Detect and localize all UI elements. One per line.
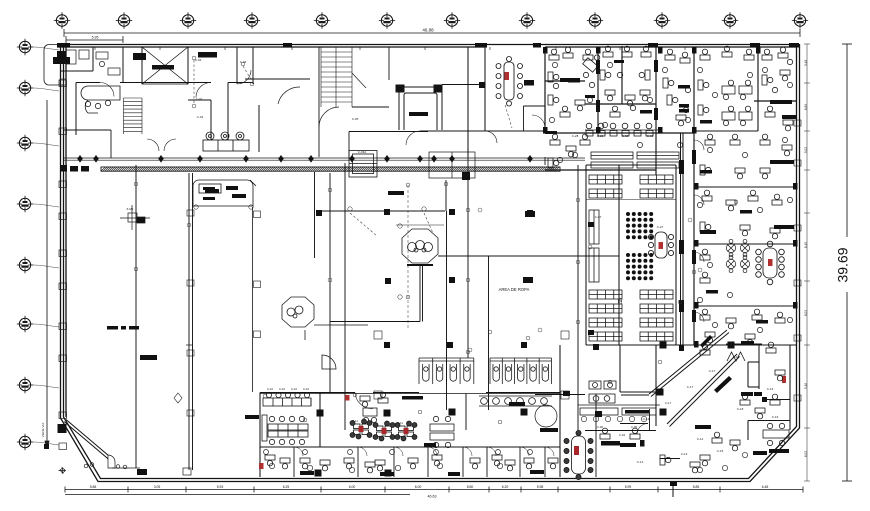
right rooms walls — [694, 101, 797, 345]
top-left canopy — [44, 45, 64, 86]
circled wall marker — [418, 410, 422, 414]
desk with chair — [622, 46, 632, 57]
office desk 2 — [320, 460, 330, 471]
chair — [395, 465, 400, 470]
desk with chair — [641, 46, 651, 57]
door jamb block — [694, 341, 699, 348]
right secondary dimension line — [804, 44, 810, 481]
chair 2 — [264, 450, 269, 455]
C-10 desk row — [263, 392, 311, 406]
conference cabinet — [524, 80, 534, 86]
desk with chair — [700, 165, 711, 175]
wall tab — [187, 210, 194, 216]
grid desk — [739, 106, 752, 126]
top wall thick segment — [533, 43, 541, 48]
chair row — [641, 416, 646, 421]
6-M1 fixture — [120, 205, 150, 230]
loose chairs — [553, 72, 594, 88]
grid bubble left 8 — [17, 434, 33, 450]
workstation cluster — [354, 424, 369, 435]
octagon kiosk — [402, 229, 438, 263]
desk with chair — [676, 115, 686, 126]
scattered chair — [677, 142, 682, 147]
circled wall marker — [608, 380, 612, 384]
office partition — [293, 447, 295, 477]
door arc — [294, 447, 303, 456]
desk — [700, 344, 710, 355]
grid bubble left 3 — [17, 135, 33, 151]
desk with chair — [783, 120, 793, 131]
top-left room furniture — [66, 50, 120, 75]
face-to-face desk cluster — [262, 415, 308, 445]
bottom band walls — [260, 345, 560, 477]
canopy tab — [60, 79, 66, 85]
circled wall marker — [406, 183, 410, 187]
dark mark — [588, 222, 594, 227]
black counter C-04 — [601, 441, 620, 446]
circled wall marker — [658, 360, 662, 364]
desk with chair — [680, 52, 690, 63]
grid bubble top 10 — [654, 12, 670, 28]
desk with chair — [760, 168, 770, 179]
column — [316, 210, 322, 216]
chair — [269, 463, 274, 468]
diamond marker — [174, 393, 182, 403]
storage rack — [640, 332, 673, 341]
wall tick — [555, 47, 557, 50]
round table — [740, 255, 749, 272]
door arc — [694, 312, 704, 322]
circled wall marker — [734, 200, 738, 204]
circled wall marker — [192, 56, 196, 60]
svg-text:C-17: C-17 — [709, 369, 716, 373]
wall marker circle — [698, 268, 702, 272]
door arc — [694, 140, 704, 150]
svg-text:C-10: C-10 — [267, 387, 274, 391]
scattered chair — [712, 92, 717, 97]
diagonal corridor — [649, 330, 740, 427]
black counter bar — [625, 410, 649, 414]
wall tab — [187, 280, 194, 286]
left wall tab — [59, 181, 67, 188]
door arc — [694, 252, 704, 262]
leader circle — [348, 207, 352, 211]
storage rack — [589, 189, 622, 198]
desk with chair — [360, 396, 370, 407]
cabinet mark — [560, 78, 576, 82]
circled wall marker — [353, 393, 357, 397]
svg-text:C-17: C-17 — [665, 401, 672, 405]
circled wall marker — [134, 267, 138, 271]
chair — [497, 463, 502, 468]
ramp wall diagonal — [64, 420, 112, 461]
chair 2 — [303, 450, 308, 455]
chair row — [617, 416, 622, 421]
diagonal thick mark 2 — [700, 335, 713, 348]
chair row — [581, 416, 586, 421]
bottom dimension line — [65, 487, 803, 493]
door jamb block — [658, 47, 663, 54]
cabinet — [770, 160, 794, 164]
large door swing circle — [535, 405, 557, 427]
wall marker circle — [618, 298, 622, 302]
desk with chair — [549, 49, 559, 60]
column — [385, 470, 392, 477]
left wall tab — [59, 412, 67, 419]
circled wall marker — [444, 182, 448, 186]
desk with chair — [744, 49, 754, 60]
svg-text:C-27: C-27 — [657, 225, 664, 229]
desk with chair — [640, 90, 650, 101]
wall to conf room — [442, 84, 485, 86]
column — [657, 389, 664, 396]
column wide — [523, 277, 533, 283]
chair 2 — [496, 450, 501, 455]
column — [527, 210, 533, 216]
loose chairs — [683, 87, 690, 112]
svg-text:C-11: C-11 — [352, 419, 358, 423]
desk with chair — [563, 47, 573, 58]
wall thick segment — [692, 250, 696, 264]
svg-text:5.98: 5.98 — [537, 485, 544, 489]
right wall tab — [794, 225, 801, 231]
grid bubble top 3 — [180, 12, 196, 28]
octagon kiosk 2 — [282, 297, 314, 327]
circled wall marker — [618, 300, 622, 304]
desk with chair — [548, 72, 559, 82]
desk with chair — [548, 158, 559, 168]
wall thick segment — [692, 150, 696, 164]
scattered chair right rooms — [697, 202, 702, 207]
door arc — [164, 139, 176, 151]
top-right office walls — [545, 46, 797, 345]
black bar — [741, 392, 753, 396]
circled wall marker — [241, 62, 245, 66]
desk with chair — [722, 46, 732, 57]
door arc — [694, 195, 704, 205]
wall marker circle — [468, 348, 472, 352]
toilet bank 2 — [490, 358, 552, 384]
entry door leaf and marks — [84, 455, 140, 469]
circled wall marker — [263, 394, 267, 398]
svg-text:C-02: C-02 — [197, 115, 204, 119]
storage rack — [640, 304, 673, 313]
desk with chair — [667, 95, 678, 105]
svg-text:C-17: C-17 — [733, 355, 740, 359]
equipment room — [193, 180, 253, 206]
circled wall marker — [678, 300, 682, 304]
circled wall marker — [576, 198, 580, 202]
office desk 2 — [408, 458, 418, 469]
thick I mark left wall — [53, 57, 70, 64]
round table — [726, 255, 735, 272]
circled wall marker — [192, 104, 196, 108]
svg-text:C-14: C-14 — [697, 437, 704, 441]
black bar sinks — [509, 402, 525, 406]
office desk 2 — [548, 458, 558, 469]
left wall tab — [59, 283, 67, 290]
desk with chair — [726, 318, 736, 329]
storage rack — [640, 189, 673, 198]
office desk 2 — [280, 458, 290, 469]
grid desk — [722, 80, 735, 100]
office partition — [462, 447, 464, 477]
column — [593, 344, 599, 350]
svg-text:C-28: C-28 — [572, 134, 579, 138]
desk with chair — [700, 455, 710, 466]
desk with chair — [660, 455, 671, 465]
storage rack — [589, 304, 622, 313]
tab on x252 wall — [254, 281, 261, 288]
wall tick — [684, 47, 686, 50]
black dash band left — [60, 165, 67, 172]
line marker diamond — [278, 155, 284, 163]
storage rack — [589, 318, 622, 327]
flag marker — [670, 481, 677, 497]
door arc — [485, 131, 497, 143]
door jamb block — [756, 47, 761, 54]
svg-text:C-10: C-10 — [279, 387, 286, 391]
chair 2 — [434, 450, 439, 455]
storage rack — [589, 175, 622, 184]
column — [525, 277, 531, 283]
red mark lower left — [259, 463, 264, 469]
scattered chair right rooms — [697, 297, 702, 302]
diagonal thick mark — [714, 376, 732, 393]
office partition — [427, 447, 429, 477]
desk with chair — [690, 462, 700, 473]
desk with chair — [700, 249, 710, 260]
svg-text:3.48: 3.48 — [804, 60, 808, 66]
column below band — [462, 172, 470, 180]
left wall tab — [59, 355, 67, 362]
svg-text:6.02: 6.02 — [804, 451, 808, 457]
office desk 2 — [470, 458, 480, 469]
desk with chair — [775, 312, 785, 323]
desk with chair — [772, 194, 782, 205]
storage rack — [589, 332, 622, 341]
dot grid lower — [626, 253, 653, 280]
stair arrow diagonal — [352, 73, 366, 88]
svg-text:C-03A: C-03A — [358, 150, 367, 154]
bubble leader — [33, 47, 59, 50]
tab on x252 wall — [254, 211, 261, 218]
C-04 room walls — [596, 394, 680, 478]
svg-text:6.00: 6.00 — [415, 485, 422, 489]
desk with chair — [762, 75, 773, 85]
washroom fixtures — [589, 381, 616, 403]
desk with chair — [705, 134, 715, 145]
jamb block — [479, 82, 485, 88]
wall marker circle — [478, 208, 482, 212]
door jamb block — [694, 183, 699, 190]
wall under toilets — [260, 393, 560, 395]
desk with chair — [700, 49, 710, 60]
loose chairs — [617, 72, 635, 110]
desk with chair — [755, 408, 765, 419]
cabinet bar — [679, 104, 689, 108]
desk with chair — [712, 432, 722, 443]
circled wall marker — [466, 208, 470, 212]
left wall tab — [59, 213, 67, 220]
desk with chair — [610, 106, 620, 117]
scattered chair right rooms — [787, 197, 792, 202]
chair — [307, 465, 312, 470]
scattered chair right rooms — [742, 152, 747, 157]
top-left block walls — [60, 47, 310, 152]
line marker diamond — [527, 155, 533, 163]
grid bubble left 4 — [17, 196, 33, 212]
line marker diamond — [77, 155, 83, 163]
right conference table — [756, 241, 785, 285]
door jamb block — [543, 127, 548, 134]
chair 2 — [528, 450, 533, 455]
svg-text:5.95: 5.95 — [92, 36, 99, 40]
left leader line — [45, 100, 49, 448]
band door arc — [355, 393, 373, 409]
svg-text:6.25: 6.25 — [283, 485, 290, 489]
desk with chair — [625, 95, 635, 106]
office partition — [486, 447, 488, 477]
line marker diamond — [308, 155, 314, 163]
desk with chair — [705, 332, 715, 343]
line marker diamond — [384, 155, 390, 163]
black dash below wall — [198, 52, 217, 58]
svg-text:6.00: 6.00 — [349, 485, 356, 489]
svg-text:C-38: C-38 — [647, 134, 654, 138]
door arc — [147, 139, 159, 151]
small top dim 5.95 — [66, 36, 123, 43]
column — [315, 470, 322, 477]
svg-text:6.89: 6.89 — [804, 104, 808, 110]
scattered chair right rooms — [707, 262, 712, 267]
dot grid upper — [626, 212, 653, 239]
floor marker — [374, 331, 382, 339]
svg-text:5.93: 5.93 — [217, 485, 224, 489]
svg-text:3.05: 3.05 — [154, 485, 161, 489]
right wall tab — [794, 160, 801, 166]
tick — [250, 180, 256, 186]
office desk — [300, 458, 310, 469]
grid bubble left 2 — [17, 80, 33, 96]
bubble leader — [33, 385, 59, 388]
desk with chair — [752, 309, 762, 320]
desk with chair — [782, 145, 792, 156]
desk with chair — [726, 200, 736, 211]
svg-text:6.20: 6.20 — [502, 485, 509, 489]
wall chunk — [679, 160, 684, 174]
desk with chair — [700, 272, 710, 283]
svg-text:6.48: 6.48 — [762, 485, 769, 489]
scattered chair — [647, 97, 652, 102]
red mark C-27 — [659, 242, 664, 249]
X-braced shaft — [142, 47, 188, 84]
red mark conference — [505, 72, 510, 80]
conference room walls — [420, 47, 545, 157]
desk with chair — [760, 134, 770, 145]
column — [521, 342, 527, 348]
wall tick — [159, 47, 161, 50]
black dash below wall — [133, 53, 146, 60]
dash2 — [540, 428, 558, 432]
column — [385, 278, 391, 284]
wall marker circle — [328, 278, 332, 282]
wall tab — [187, 410, 194, 416]
svg-text:C-11: C-11 — [397, 421, 403, 425]
door jamb block — [692, 127, 697, 134]
line marker diamond — [93, 155, 99, 163]
stair 2 — [321, 47, 352, 107]
desk with chair — [698, 80, 709, 90]
desk with chair — [600, 428, 610, 439]
circled wall marker — [303, 418, 307, 422]
door jamb block — [596, 47, 601, 54]
chair 2 — [390, 450, 395, 455]
round table — [740, 239, 749, 256]
circled wall marker — [526, 336, 530, 340]
office partition — [544, 447, 546, 477]
desk with chair — [665, 49, 675, 60]
scattered chair — [662, 67, 667, 72]
desk with chair — [775, 370, 785, 381]
black bar on wall y81 — [568, 78, 580, 83]
office desk — [524, 458, 534, 469]
long counters — [591, 152, 679, 168]
line marker diamond — [431, 155, 437, 163]
wall y130 top-left — [63, 129, 111, 131]
desk pair cluster — [430, 416, 454, 447]
scattered chair right rooms — [712, 322, 717, 327]
svg-text:5.88: 5.88 — [90, 485, 97, 489]
oval conference table C-07 — [572, 436, 586, 474]
tab on x252 wall — [254, 331, 261, 338]
circled wall marker — [328, 188, 332, 192]
desk with chair — [766, 342, 776, 353]
hall wall x252 — [252, 207, 254, 392]
wall tick — [359, 47, 361, 50]
scattered chair — [697, 67, 702, 72]
left wall tab — [59, 443, 67, 450]
svg-text:C-10: C-10 — [303, 387, 310, 391]
wall tab — [187, 350, 194, 356]
left wall tab — [59, 128, 67, 135]
desk with chair — [548, 95, 559, 105]
desk with chair — [765, 106, 775, 117]
column — [660, 409, 667, 416]
grid bubble left 7 — [17, 377, 33, 393]
scattered chair — [549, 117, 554, 122]
svg-text:C-15: C-15 — [717, 449, 724, 453]
line marker diamond — [243, 155, 249, 163]
left wall tab — [59, 323, 67, 330]
svg-text:5.02: 5.02 — [804, 147, 808, 153]
cabinet — [770, 100, 792, 104]
office desk 2 — [365, 462, 375, 473]
dumbwaiter shaft — [349, 151, 377, 178]
right wall tab — [794, 120, 801, 126]
door arc — [520, 447, 529, 456]
chair 2 — [348, 450, 353, 455]
wall dash — [741, 341, 754, 345]
wall marker circle — [588, 245, 592, 249]
line marker diamond — [417, 155, 423, 163]
svg-text:C-13: C-13 — [681, 452, 688, 456]
leader end dot — [44, 444, 49, 449]
floor marker — [561, 331, 569, 339]
door arc — [394, 447, 403, 456]
black dash — [402, 396, 423, 400]
loose chairs — [772, 59, 792, 92]
